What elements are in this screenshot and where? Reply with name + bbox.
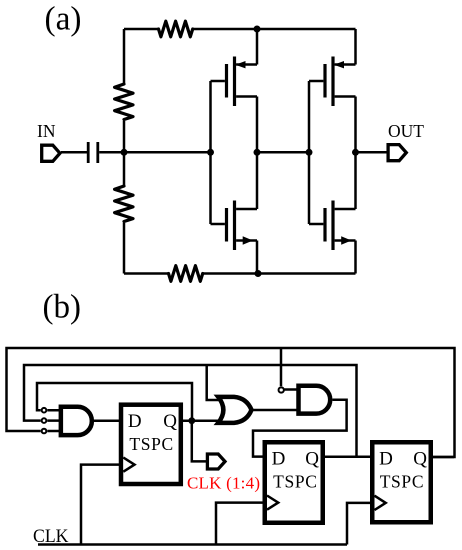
bubble AND2 input bbox=[279, 387, 284, 392]
flipflop TSPC3 bbox=[372, 442, 431, 522]
resistor R2 upper bias bbox=[115, 84, 133, 120]
svg-text:D: D bbox=[379, 448, 393, 469]
wire Q1 to CLK out port bbox=[192, 421, 206, 462]
wire feedback Q2 to OR top input bbox=[207, 365, 223, 400]
port IN bbox=[42, 145, 60, 161]
wire Q1 output bbox=[183, 419, 223, 422]
wire IN to capacitor bbox=[61, 151, 87, 154]
wire CLK to TSPC2 bbox=[216, 503, 263, 545]
node input bias junction bbox=[121, 149, 128, 156]
wire gate column stage1 bbox=[209, 81, 212, 224]
svg-text:CLK (1:4): CLK (1:4) bbox=[187, 474, 260, 493]
clock triangle TSPC2 bbox=[267, 496, 278, 510]
wire AND3 inputs bbox=[47, 410, 60, 431]
flipflop TSPC1 bbox=[121, 405, 181, 484]
resistor R4 bottom feedback bbox=[169, 266, 203, 282]
node Q1 junction bbox=[188, 417, 195, 424]
node drain2 junction bbox=[352, 149, 359, 156]
wire feedback net Q1 inner loop bbox=[37, 383, 192, 421]
wire CLK to TSPC3 bbox=[347, 503, 370, 545]
transistor M4 NMOS stage2 bbox=[309, 152, 356, 273]
gate OR1 bbox=[218, 397, 251, 423]
port OUT bbox=[388, 145, 406, 161]
clock triangle TSPC1 bbox=[123, 458, 134, 472]
wire Q2 to D3 bbox=[325, 456, 370, 459]
transistor M1 PMOS stage1 bbox=[211, 29, 258, 152]
bubble AND3 input top bbox=[42, 408, 47, 413]
wire CLK to TSPC1 bbox=[81, 465, 119, 545]
gate AND2 bbox=[299, 386, 331, 414]
wire top rail bbox=[124, 28, 356, 31]
node bottom rail junction bbox=[255, 270, 262, 277]
svg-text:TSPC: TSPC bbox=[129, 434, 173, 454]
wire feedback net Q2 middle loop bbox=[24, 365, 357, 457]
svg-text:TSPC: TSPC bbox=[380, 472, 424, 492]
transistor M3 PMOS stage2 bbox=[309, 29, 356, 152]
wire Q3 output bbox=[433, 456, 454, 459]
svg-text:D: D bbox=[128, 411, 142, 432]
wire feedback Q3 to AND2 inverted input bbox=[280, 348, 283, 386]
transistor M2 NMOS stage1 bbox=[211, 152, 258, 273]
wire bottom rail bbox=[124, 272, 356, 275]
node top rail junction bbox=[254, 26, 261, 33]
wire feedback net Q3 outer loop bbox=[7, 348, 455, 457]
node drain1 junction bbox=[254, 149, 261, 156]
svg-text:OUT: OUT bbox=[388, 121, 424, 141]
wire OR output bbox=[252, 409, 297, 412]
wire AND2 inverted input from top bbox=[284, 388, 298, 391]
resistor R3 lower bias bbox=[115, 186, 133, 222]
bubble AND3 input middle bbox=[42, 418, 47, 423]
clock triangle TSPC3 bbox=[375, 496, 386, 510]
svg-text:Q: Q bbox=[305, 448, 319, 469]
node gate2 junction bbox=[306, 149, 313, 156]
capacitor C1 bbox=[87, 142, 90, 163]
resistor R1 top feedback bbox=[159, 21, 193, 37]
wire AND3 output to D1 bbox=[92, 419, 119, 422]
wire output bbox=[356, 151, 389, 154]
wire stage1 to stage2 bbox=[257, 151, 309, 154]
flipflop TSPC2 bbox=[265, 442, 323, 523]
wire AND2 output to D2 bbox=[253, 400, 347, 457]
wire input node bbox=[99, 151, 210, 154]
wire CLK distribution bbox=[38, 543, 347, 546]
wire left bias rail bbox=[123, 29, 126, 274]
bubble AND3 input bottom bbox=[42, 429, 47, 434]
svg-text:TSPC: TSPC bbox=[273, 472, 317, 492]
svg-text:Q: Q bbox=[413, 448, 427, 469]
svg-text:IN: IN bbox=[37, 121, 56, 141]
svg-text:(a): (a) bbox=[45, 1, 82, 38]
gate AND3 bbox=[61, 407, 92, 435]
svg-text:D: D bbox=[272, 448, 286, 469]
node gate1 junction bbox=[207, 149, 214, 156]
port CLK out bbox=[207, 454, 225, 469]
svg-text:(b): (b) bbox=[43, 289, 82, 326]
svg-text:Q: Q bbox=[163, 411, 177, 432]
wire gate column stage2 bbox=[308, 81, 311, 224]
